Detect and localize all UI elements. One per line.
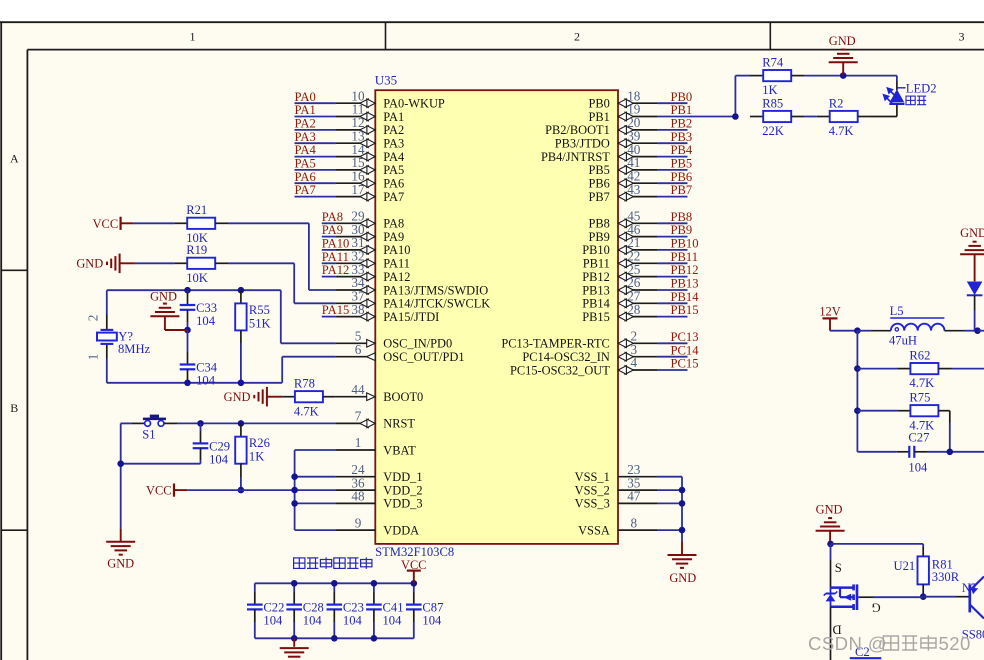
svg-text:PB12: PB12 — [671, 263, 699, 277]
svg-text:C34: C34 — [196, 361, 218, 375]
svg-text:OSC_IN/PD0: OSC_IN/PD0 — [383, 337, 452, 351]
svg-text:PA12: PA12 — [322, 263, 350, 277]
svg-text:R2: R2 — [829, 96, 844, 110]
svg-text:PB7: PB7 — [588, 190, 609, 204]
svg-text:N7: N7 — [962, 581, 977, 595]
svg-text:PA11: PA11 — [383, 257, 410, 271]
svg-text:PC15: PC15 — [671, 357, 699, 371]
svg-text:PA1: PA1 — [383, 110, 404, 124]
svg-text:PB13: PB13 — [582, 283, 610, 297]
svg-text:VSS_1: VSS_1 — [575, 470, 610, 484]
svg-text:12V: 12V — [819, 305, 840, 319]
svg-text:4.7K: 4.7K — [294, 404, 319, 418]
svg-text:A: A — [10, 152, 19, 166]
svg-text:C29: C29 — [209, 439, 230, 453]
svg-text:520: 520 — [939, 633, 971, 654]
svg-text:PC14-OSC32_IN: PC14-OSC32_IN — [522, 350, 609, 364]
svg-text:47: 47 — [627, 489, 641, 504]
svg-text:U21: U21 — [894, 559, 916, 573]
svg-text:GND: GND — [224, 390, 251, 404]
svg-text:104: 104 — [196, 374, 216, 388]
svg-text:9: 9 — [355, 515, 362, 530]
svg-text:C33: C33 — [196, 301, 217, 315]
svg-text:PA1: PA1 — [295, 103, 316, 117]
svg-text:PB0: PB0 — [588, 97, 609, 111]
svg-text:C22: C22 — [263, 601, 284, 615]
svg-text:NRST: NRST — [383, 417, 415, 431]
svg-text:PA7: PA7 — [383, 190, 404, 204]
svg-text:7: 7 — [355, 409, 362, 424]
svg-text:PA15/JTDI: PA15/JTDI — [383, 310, 439, 324]
svg-text:104: 104 — [196, 314, 216, 328]
svg-text:PB15: PB15 — [582, 310, 610, 324]
svg-text:1K: 1K — [249, 450, 264, 464]
svg-text:PA2: PA2 — [383, 123, 404, 137]
svg-text:8MHz: 8MHz — [118, 342, 151, 356]
svg-text:S1: S1 — [142, 428, 155, 442]
svg-text:PA9: PA9 — [383, 230, 404, 244]
svg-text:PB5: PB5 — [588, 163, 609, 177]
svg-text:PC13-TAMPER-RTC: PC13-TAMPER-RTC — [501, 337, 609, 351]
svg-text:R55: R55 — [249, 303, 270, 317]
svg-text:PB4: PB4 — [671, 143, 693, 157]
svg-text:PB2: PB2 — [671, 117, 693, 131]
svg-text:VDD_2: VDD_2 — [383, 483, 422, 497]
svg-text:10K: 10K — [186, 271, 208, 285]
svg-text:PA10: PA10 — [322, 237, 350, 251]
svg-text:2: 2 — [86, 315, 101, 322]
svg-text:GND: GND — [76, 257, 103, 271]
svg-text:104: 104 — [263, 614, 283, 628]
svg-text:1K: 1K — [762, 83, 777, 97]
svg-text:GND: GND — [150, 290, 177, 304]
svg-text:4.7K: 4.7K — [909, 376, 934, 390]
svg-text:R19: R19 — [186, 243, 207, 257]
svg-text:PB14: PB14 — [582, 297, 610, 311]
svg-text:GND: GND — [960, 226, 984, 240]
svg-text:4.7K: 4.7K — [829, 124, 854, 138]
svg-text:U35: U35 — [375, 73, 397, 88]
svg-text:GND: GND — [669, 571, 696, 585]
svg-text:PB11: PB11 — [671, 250, 699, 264]
svg-text:VDD_3: VDD_3 — [383, 497, 422, 511]
svg-text:R21: R21 — [186, 203, 207, 217]
svg-text:104: 104 — [422, 614, 442, 628]
svg-text:G: G — [871, 601, 880, 615]
svg-text:L5: L5 — [890, 304, 904, 318]
svg-text:PB10: PB10 — [582, 243, 610, 257]
svg-text:PA13/JTMS/SWDIO: PA13/JTMS/SWDIO — [383, 283, 488, 297]
svg-text:PB3: PB3 — [671, 130, 693, 144]
svg-text:PB1: PB1 — [671, 103, 693, 117]
svg-text:104: 104 — [343, 614, 363, 628]
svg-text:PA11: PA11 — [322, 250, 349, 264]
svg-text:B: B — [10, 401, 18, 415]
svg-text:PC14: PC14 — [671, 343, 700, 357]
svg-text:PA4: PA4 — [295, 143, 317, 157]
svg-text:PB1: PB1 — [588, 110, 609, 124]
svg-text:22K: 22K — [762, 124, 784, 138]
svg-text:1: 1 — [190, 30, 196, 44]
svg-text:PC15-OSC32_OUT: PC15-OSC32_OUT — [510, 363, 610, 377]
svg-text:VSS_3: VSS_3 — [575, 497, 610, 511]
svg-text:PB4/JNTRST: PB4/JNTRST — [541, 150, 610, 164]
svg-text:PB8: PB8 — [671, 210, 693, 224]
svg-text:PA6: PA6 — [383, 177, 404, 191]
svg-text:VCC: VCC — [146, 484, 171, 498]
svg-text:VDD_1: VDD_1 — [383, 470, 422, 484]
svg-text:PB11: PB11 — [583, 257, 610, 271]
svg-text:330R: 330R — [932, 570, 960, 584]
svg-text:PA0-WKUP: PA0-WKUP — [383, 97, 445, 111]
svg-text:LED2: LED2 — [906, 82, 937, 96]
svg-text:PA12: PA12 — [383, 270, 410, 284]
svg-text:GND: GND — [816, 502, 843, 516]
svg-text:PA2: PA2 — [295, 117, 316, 131]
svg-text:104: 104 — [209, 452, 229, 466]
svg-text:VDDA: VDDA — [383, 523, 419, 537]
svg-text:R75: R75 — [909, 391, 930, 405]
svg-text:PA3: PA3 — [295, 130, 316, 144]
svg-text:6: 6 — [355, 342, 362, 357]
svg-text:PB15: PB15 — [671, 303, 699, 317]
svg-text:PA7: PA7 — [295, 183, 316, 197]
svg-text:OSC_OUT/PD1: OSC_OUT/PD1 — [383, 350, 464, 364]
svg-text:PB3/JTDO: PB3/JTDO — [555, 137, 610, 151]
svg-text:GND: GND — [829, 34, 856, 48]
svg-text:PB5: PB5 — [671, 157, 693, 171]
svg-text:VCC: VCC — [93, 217, 118, 231]
svg-text:PA5: PA5 — [295, 157, 316, 171]
svg-text:R62: R62 — [909, 348, 930, 362]
svg-text:C28: C28 — [303, 601, 324, 615]
svg-text:PB2/BOOT1: PB2/BOOT1 — [545, 123, 610, 137]
svg-text:R26: R26 — [249, 436, 270, 450]
svg-text:R74: R74 — [762, 55, 784, 69]
svg-text:104: 104 — [303, 614, 323, 628]
svg-text:PA10: PA10 — [383, 243, 410, 257]
svg-text:C87: C87 — [422, 601, 443, 615]
svg-text:2: 2 — [574, 30, 580, 44]
svg-text:C41: C41 — [383, 601, 404, 615]
svg-text:PA4: PA4 — [383, 150, 404, 164]
svg-text:48: 48 — [351, 489, 365, 504]
svg-text:PB7: PB7 — [671, 183, 693, 197]
svg-text:104: 104 — [908, 461, 928, 475]
svg-text:C23: C23 — [343, 601, 364, 615]
svg-text:PA14/JTCK/SWCLK: PA14/JTCK/SWCLK — [383, 297, 490, 311]
svg-text:C27: C27 — [908, 431, 929, 445]
svg-text:PB14: PB14 — [671, 290, 700, 304]
svg-text:3: 3 — [959, 30, 965, 44]
svg-text:PB13: PB13 — [671, 277, 699, 291]
svg-text:104: 104 — [383, 614, 403, 628]
svg-text:47uH: 47uH — [889, 334, 917, 348]
svg-text:R78: R78 — [294, 377, 315, 391]
svg-text:VBAT: VBAT — [383, 443, 416, 457]
svg-text:VSSA: VSSA — [578, 523, 610, 537]
svg-text:PA8: PA8 — [383, 217, 404, 231]
svg-text:CSDN @: CSDN @ — [808, 633, 887, 654]
svg-text:PB6: PB6 — [671, 170, 693, 184]
svg-text:44: 44 — [351, 382, 365, 397]
svg-text:PB0: PB0 — [671, 90, 693, 104]
svg-text:S: S — [835, 561, 842, 575]
svg-text:BOOT0: BOOT0 — [383, 390, 423, 404]
svg-text:PB6: PB6 — [588, 177, 609, 191]
svg-text:PA3: PA3 — [383, 137, 404, 151]
svg-text:1: 1 — [86, 354, 101, 361]
svg-text:51K: 51K — [249, 316, 271, 330]
svg-text:VSS_2: VSS_2 — [575, 483, 610, 497]
svg-text:PA5: PA5 — [383, 163, 404, 177]
svg-text:PB9: PB9 — [671, 223, 693, 237]
svg-text:R85: R85 — [762, 96, 783, 110]
svg-text:PB12: PB12 — [582, 270, 610, 284]
svg-text:PB10: PB10 — [671, 237, 699, 251]
svg-text:PA8: PA8 — [322, 210, 343, 224]
svg-text:PA6: PA6 — [295, 170, 316, 184]
svg-text:8: 8 — [631, 515, 638, 530]
svg-text:GND: GND — [107, 556, 134, 570]
svg-text:4: 4 — [631, 355, 638, 370]
svg-text:PA15: PA15 — [322, 303, 350, 317]
svg-text:PB9: PB9 — [588, 230, 609, 244]
svg-text:PA9: PA9 — [322, 223, 343, 237]
svg-text:PB8: PB8 — [588, 217, 609, 231]
svg-text:PA0: PA0 — [295, 90, 316, 104]
svg-text:PC13: PC13 — [671, 330, 699, 344]
svg-text:1: 1 — [355, 435, 362, 450]
